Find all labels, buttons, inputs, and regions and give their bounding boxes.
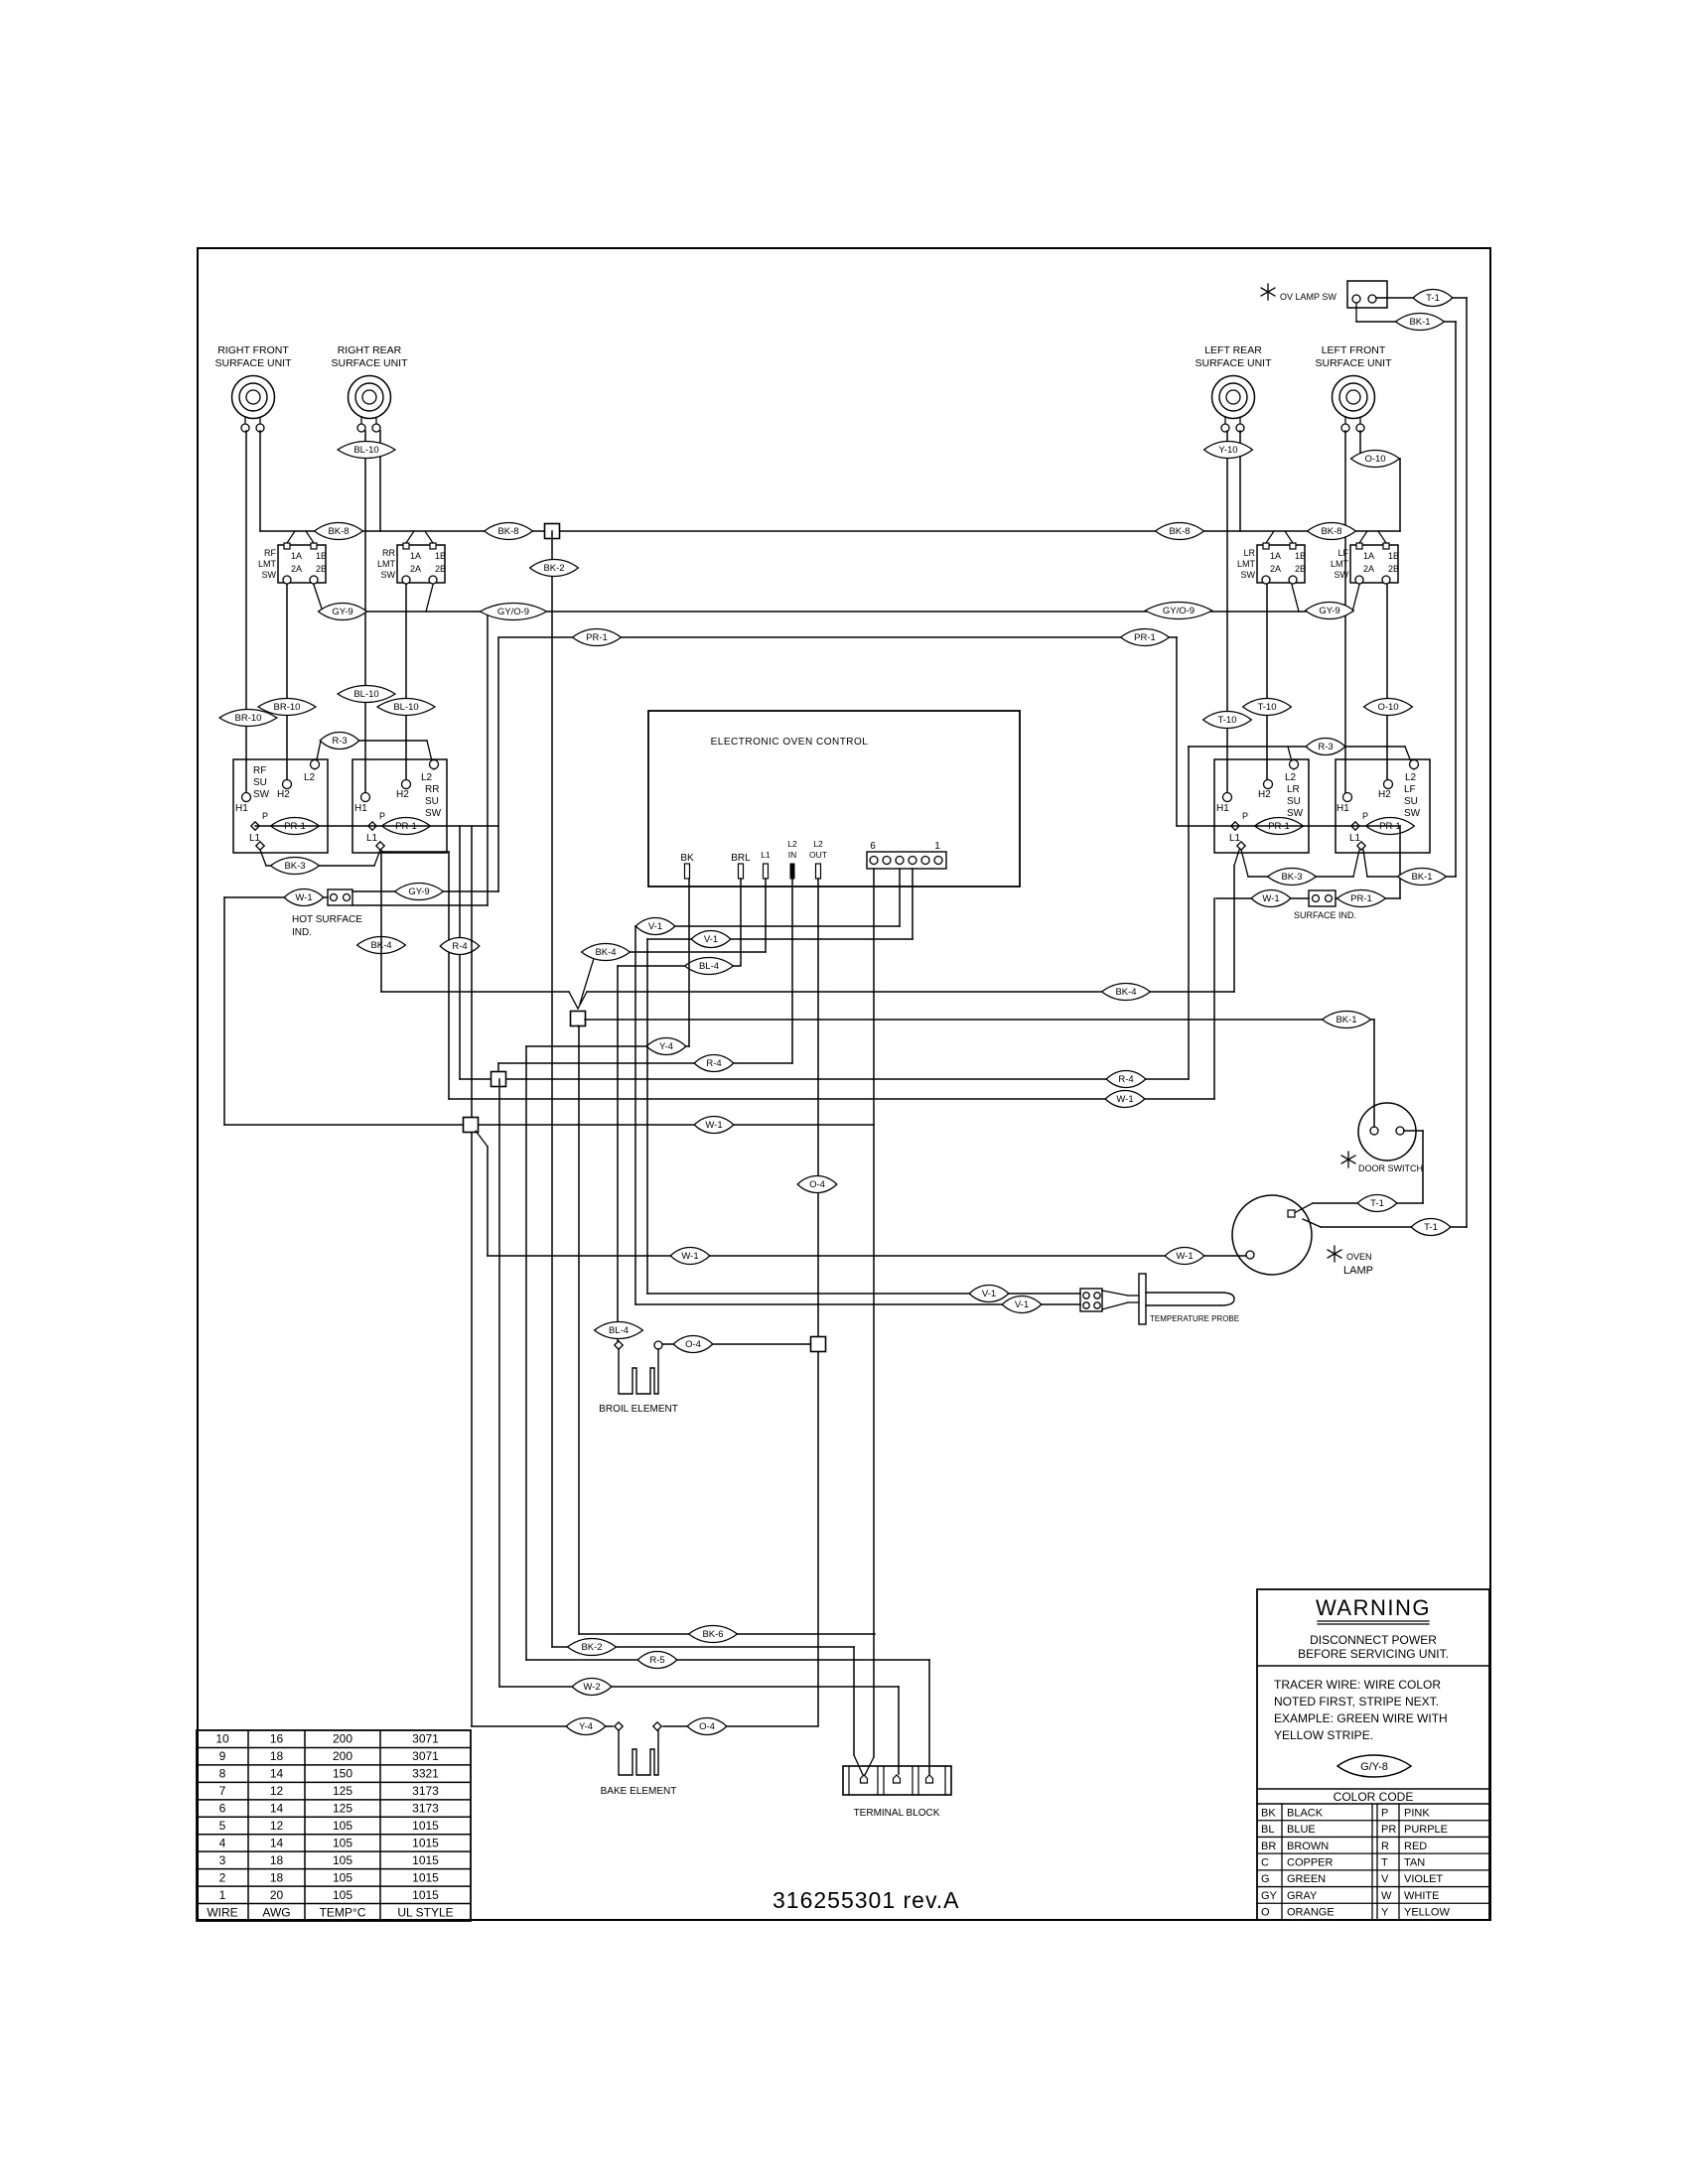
svg-text:14: 14 xyxy=(270,1836,284,1849)
svg-text:TRACER WIRE: WIRE COLOR: TRACER WIRE: WIRE COLOR xyxy=(1274,1678,1441,1692)
svg-text:150: 150 xyxy=(333,1767,352,1781)
svg-text:18: 18 xyxy=(270,1870,284,1884)
svg-text:LMT: LMT xyxy=(377,559,396,569)
svg-text:P: P xyxy=(262,811,268,821)
svg-text:V-1: V-1 xyxy=(1015,1299,1029,1310)
svg-text:SURFACE UNIT: SURFACE UNIT xyxy=(331,357,408,369)
svg-text:IN: IN xyxy=(788,850,797,860)
svg-text:O-10: O-10 xyxy=(1377,702,1398,713)
svg-text:3071: 3071 xyxy=(412,1732,439,1746)
svg-text:RIGHT FRONT: RIGHT FRONT xyxy=(217,344,289,356)
svg-text:SW: SW xyxy=(381,570,396,580)
svg-text:P: P xyxy=(1242,811,1248,821)
svg-text:L2: L2 xyxy=(304,772,316,783)
svg-text:1A: 1A xyxy=(410,551,421,561)
svg-text:BK-3: BK-3 xyxy=(284,861,305,872)
svg-text:BK-4: BK-4 xyxy=(595,947,616,958)
svg-text:7: 7 xyxy=(219,1784,226,1798)
svg-text:T-1: T-1 xyxy=(1424,1222,1438,1233)
svg-text:O-4: O-4 xyxy=(809,1179,825,1190)
svg-text:COPPER: COPPER xyxy=(1287,1857,1334,1869)
svg-text:SU: SU xyxy=(253,777,267,788)
svg-text:R-4: R-4 xyxy=(452,941,467,952)
svg-text:BL: BL xyxy=(1261,1824,1274,1836)
svg-text:5: 5 xyxy=(219,1819,226,1833)
svg-text:SURFACE UNIT: SURFACE UNIT xyxy=(214,357,292,369)
svg-text:1B: 1B xyxy=(316,551,327,561)
svg-text:V-1: V-1 xyxy=(648,921,662,932)
svg-text:3: 3 xyxy=(219,1853,226,1867)
svg-text:105: 105 xyxy=(333,1853,352,1867)
svg-text:G/Y-8: G/Y-8 xyxy=(1360,1761,1388,1773)
svg-text:BLACK: BLACK xyxy=(1287,1807,1324,1819)
svg-text:P: P xyxy=(1362,811,1368,821)
svg-text:BK-2: BK-2 xyxy=(543,563,564,574)
svg-text:1: 1 xyxy=(219,1888,226,1902)
svg-text:H2: H2 xyxy=(277,789,290,800)
svg-text:BL-4: BL-4 xyxy=(609,1325,629,1336)
svg-text:BL-10: BL-10 xyxy=(353,689,378,700)
svg-text:BK-1: BK-1 xyxy=(1336,1015,1356,1025)
svg-text:125: 125 xyxy=(333,1802,352,1816)
svg-text:2A: 2A xyxy=(1363,564,1374,574)
svg-text:Y: Y xyxy=(1381,1907,1389,1919)
svg-text:OVEN: OVEN xyxy=(1346,1252,1372,1262)
svg-text:SW: SW xyxy=(425,808,442,819)
svg-text:W-1: W-1 xyxy=(1262,893,1279,904)
svg-text:1A: 1A xyxy=(1270,551,1281,561)
svg-text:G: G xyxy=(1261,1873,1270,1885)
svg-text:W-1: W-1 xyxy=(295,892,312,903)
svg-text:BK-2: BK-2 xyxy=(581,1642,602,1653)
svg-text:UL STYLE: UL STYLE xyxy=(397,1905,453,1919)
svg-text:DOOR SWITCH: DOOR SWITCH xyxy=(1358,1163,1423,1173)
svg-text:LEFT FRONT: LEFT FRONT xyxy=(1322,344,1386,356)
svg-text:9: 9 xyxy=(219,1749,226,1763)
svg-text:LEFT REAR: LEFT REAR xyxy=(1204,344,1262,356)
svg-text:1015: 1015 xyxy=(412,1819,439,1833)
svg-text:HOT SURFACE: HOT SURFACE xyxy=(292,914,362,925)
svg-text:BK: BK xyxy=(1261,1807,1276,1819)
svg-text:H1: H1 xyxy=(1336,803,1349,814)
svg-text:GRAY: GRAY xyxy=(1287,1890,1318,1902)
svg-text:6: 6 xyxy=(870,841,876,852)
svg-text:SURFACE IND.: SURFACE IND. xyxy=(1294,910,1356,920)
svg-text:LMT: LMT xyxy=(258,559,277,569)
svg-text:P: P xyxy=(1381,1807,1388,1819)
svg-text:3173: 3173 xyxy=(412,1802,439,1816)
svg-text:SW: SW xyxy=(1241,570,1256,580)
svg-text:L2: L2 xyxy=(813,839,823,849)
svg-text:L2: L2 xyxy=(421,772,433,783)
svg-text:GY/O-9: GY/O-9 xyxy=(1163,606,1195,616)
svg-text:SW: SW xyxy=(1404,808,1421,819)
svg-text:105: 105 xyxy=(333,1836,352,1849)
svg-text:14: 14 xyxy=(270,1767,284,1781)
svg-text:WHITE: WHITE xyxy=(1404,1890,1439,1902)
svg-text:316255301 rev.A: 316255301 rev.A xyxy=(773,1887,960,1913)
svg-text:T: T xyxy=(1381,1857,1388,1869)
svg-text:BR-10: BR-10 xyxy=(274,702,301,713)
svg-text:L1: L1 xyxy=(366,833,378,844)
svg-text:1015: 1015 xyxy=(412,1888,439,1902)
svg-text:8: 8 xyxy=(219,1767,226,1781)
svg-text:NOTED FIRST, STRIPE NEXT.: NOTED FIRST, STRIPE NEXT. xyxy=(1274,1695,1439,1708)
svg-text:GY-9: GY-9 xyxy=(1319,606,1339,616)
svg-text:10: 10 xyxy=(215,1732,229,1746)
svg-text:T-1: T-1 xyxy=(1370,1198,1384,1209)
svg-text:6: 6 xyxy=(219,1802,226,1816)
svg-text:BK-4: BK-4 xyxy=(1115,987,1136,998)
svg-text:LR: LR xyxy=(1243,548,1255,558)
svg-text:GY-9: GY-9 xyxy=(408,887,429,897)
svg-text:R-4: R-4 xyxy=(706,1058,721,1069)
svg-text:W-1: W-1 xyxy=(705,1120,722,1131)
svg-text:BK-6: BK-6 xyxy=(702,1629,723,1640)
svg-text:PINK: PINK xyxy=(1404,1807,1430,1819)
svg-text:2: 2 xyxy=(219,1870,226,1884)
svg-text:1015: 1015 xyxy=(412,1870,439,1884)
svg-text:1B: 1B xyxy=(1295,551,1306,561)
svg-text:ELECTRONIC OVEN CONTROL: ELECTRONIC OVEN CONTROL xyxy=(711,737,869,748)
svg-text:RF: RF xyxy=(253,765,266,776)
svg-text:BK-8: BK-8 xyxy=(328,526,349,537)
svg-text:4: 4 xyxy=(219,1836,226,1849)
svg-text:L2: L2 xyxy=(1285,772,1297,783)
svg-text:VIOLET: VIOLET xyxy=(1404,1873,1443,1885)
svg-text:SURFACE UNIT: SURFACE UNIT xyxy=(1195,357,1272,369)
svg-text:LF: LF xyxy=(1337,548,1348,558)
svg-text:BK-8: BK-8 xyxy=(497,526,518,537)
svg-text:2B: 2B xyxy=(1388,564,1399,574)
svg-text:L1: L1 xyxy=(1229,833,1241,844)
svg-text:BK-8: BK-8 xyxy=(1321,526,1341,537)
svg-text:L1: L1 xyxy=(1349,833,1361,844)
svg-text:AWG: AWG xyxy=(262,1905,290,1919)
svg-text:L2: L2 xyxy=(1405,772,1417,783)
svg-text:1B: 1B xyxy=(435,551,446,561)
svg-text:V: V xyxy=(1381,1873,1389,1885)
svg-text:W-1: W-1 xyxy=(1116,1094,1133,1105)
svg-text:BLUE: BLUE xyxy=(1287,1824,1316,1836)
svg-text:BK: BK xyxy=(680,853,694,864)
svg-text:18: 18 xyxy=(270,1749,284,1763)
svg-text:H1: H1 xyxy=(354,803,367,814)
svg-text:R-4: R-4 xyxy=(1118,1074,1133,1085)
svg-text:16: 16 xyxy=(270,1732,284,1746)
svg-text:GY: GY xyxy=(1261,1890,1278,1902)
svg-text:WIRE: WIRE xyxy=(207,1905,237,1919)
svg-text:GREEN: GREEN xyxy=(1287,1873,1326,1885)
svg-text:2B: 2B xyxy=(435,564,446,574)
svg-text:3321: 3321 xyxy=(412,1767,439,1781)
svg-text:SW: SW xyxy=(1335,570,1349,580)
svg-text:YELLOW STRIPE.: YELLOW STRIPE. xyxy=(1274,1728,1373,1742)
svg-text:BK-1: BK-1 xyxy=(1409,317,1430,328)
svg-text:TEMPERATURE PROBE: TEMPERATURE PROBE xyxy=(1150,1314,1239,1323)
svg-text:O-4: O-4 xyxy=(699,1721,715,1732)
svg-text:125: 125 xyxy=(333,1784,352,1798)
svg-text:H1: H1 xyxy=(1216,803,1229,814)
svg-text:PR: PR xyxy=(1381,1824,1396,1836)
svg-text:BR: BR xyxy=(1261,1841,1276,1852)
svg-text:Y-4: Y-4 xyxy=(579,1721,593,1732)
svg-text:2B: 2B xyxy=(316,564,327,574)
svg-text:1015: 1015 xyxy=(412,1853,439,1867)
svg-text:1A: 1A xyxy=(291,551,302,561)
svg-text:R-3: R-3 xyxy=(332,736,347,747)
svg-text:SW: SW xyxy=(1287,808,1304,819)
svg-text:BK-1: BK-1 xyxy=(1411,872,1432,883)
svg-text:O: O xyxy=(1261,1907,1270,1919)
svg-text:V-1: V-1 xyxy=(982,1289,996,1299)
svg-text:R: R xyxy=(1381,1841,1389,1852)
svg-text:BL-4: BL-4 xyxy=(699,961,719,972)
svg-text:12: 12 xyxy=(270,1784,284,1798)
svg-text:H2: H2 xyxy=(396,789,409,800)
svg-text:OUT: OUT xyxy=(809,850,827,860)
svg-text:BEFORE SERVICING UNIT.: BEFORE SERVICING UNIT. xyxy=(1298,1647,1449,1661)
svg-text:H1: H1 xyxy=(235,803,248,814)
svg-text:L1: L1 xyxy=(249,833,261,844)
svg-text:200: 200 xyxy=(333,1732,352,1746)
svg-text:RED: RED xyxy=(1404,1841,1427,1852)
svg-text:DISCONNECT POWER: DISCONNECT POWER xyxy=(1310,1633,1437,1647)
svg-text:RR: RR xyxy=(425,784,439,795)
svg-text:1A: 1A xyxy=(1363,551,1374,561)
svg-text:L2: L2 xyxy=(787,839,797,849)
svg-text:P: P xyxy=(379,811,385,821)
svg-text:OV LAMP SW: OV LAMP SW xyxy=(1280,292,1336,302)
svg-text:TERMINAL BLOCK: TERMINAL BLOCK xyxy=(854,1808,940,1819)
svg-text:V-1: V-1 xyxy=(704,934,718,945)
svg-text:RIGHT REAR: RIGHT REAR xyxy=(338,344,402,356)
svg-text:BL-10: BL-10 xyxy=(393,702,418,713)
svg-text:105: 105 xyxy=(333,1888,352,1902)
svg-text:BRL: BRL xyxy=(731,853,751,864)
svg-text:LF: LF xyxy=(1404,784,1416,795)
svg-text:EXAMPLE: GREEN WIRE WITH: EXAMPLE: GREEN WIRE WITH xyxy=(1274,1711,1448,1725)
svg-text:L1: L1 xyxy=(761,850,771,860)
svg-text:BROIL ELEMENT: BROIL ELEMENT xyxy=(599,1404,678,1415)
svg-text:YELLOW: YELLOW xyxy=(1404,1907,1450,1919)
svg-text:SW: SW xyxy=(253,789,270,800)
svg-text:H2: H2 xyxy=(1378,789,1391,800)
svg-text:T-1: T-1 xyxy=(1426,293,1440,304)
svg-text:PR-1: PR-1 xyxy=(1134,632,1156,643)
svg-text:GY-9: GY-9 xyxy=(332,607,352,617)
svg-text:TEMP°C: TEMP°C xyxy=(320,1905,366,1919)
svg-text:R-3: R-3 xyxy=(1318,742,1333,752)
svg-text:PR-1: PR-1 xyxy=(586,632,608,643)
svg-text:LMT: LMT xyxy=(1237,559,1256,569)
svg-text:T-10: T-10 xyxy=(1257,702,1276,713)
svg-text:COLOR CODE: COLOR CODE xyxy=(1334,1790,1414,1804)
svg-text:12: 12 xyxy=(270,1819,284,1833)
svg-text:1: 1 xyxy=(934,841,940,852)
svg-text:2B: 2B xyxy=(1295,564,1306,574)
svg-text:BROWN: BROWN xyxy=(1287,1841,1329,1852)
svg-text:ORANGE: ORANGE xyxy=(1287,1907,1335,1919)
svg-text:LAMP: LAMP xyxy=(1343,1265,1373,1277)
svg-text:W-1: W-1 xyxy=(1176,1251,1193,1262)
svg-text:SU: SU xyxy=(1287,796,1301,807)
svg-text:200: 200 xyxy=(333,1749,352,1763)
svg-text:BK-3: BK-3 xyxy=(1281,872,1302,883)
svg-text:3173: 3173 xyxy=(412,1784,439,1798)
svg-text:2A: 2A xyxy=(1270,564,1281,574)
svg-text:3071: 3071 xyxy=(412,1749,439,1763)
svg-text:W-1: W-1 xyxy=(681,1251,698,1262)
svg-text:Y-10: Y-10 xyxy=(1218,445,1237,456)
svg-text:RR: RR xyxy=(382,548,395,558)
svg-text:14: 14 xyxy=(270,1802,284,1816)
svg-text:H2: H2 xyxy=(1258,789,1271,800)
svg-text:GY/O-9: GY/O-9 xyxy=(497,607,529,617)
svg-text:IND.: IND. xyxy=(292,927,312,938)
svg-text:O-4: O-4 xyxy=(685,1339,701,1350)
svg-text:R-5: R-5 xyxy=(649,1655,664,1666)
svg-text:SU: SU xyxy=(425,796,439,807)
svg-text:SU: SU xyxy=(1404,796,1418,807)
svg-text:BL-10: BL-10 xyxy=(353,445,378,456)
svg-text:BR-10: BR-10 xyxy=(235,713,262,724)
svg-text:PR-1: PR-1 xyxy=(1350,893,1372,904)
svg-text:105: 105 xyxy=(333,1870,352,1884)
svg-text:BAKE ELEMENT: BAKE ELEMENT xyxy=(601,1786,677,1797)
svg-text:105: 105 xyxy=(333,1819,352,1833)
svg-text:1B: 1B xyxy=(1388,551,1399,561)
svg-text:2A: 2A xyxy=(410,564,421,574)
svg-text:WARNING: WARNING xyxy=(1316,1595,1431,1620)
svg-text:C: C xyxy=(1261,1857,1269,1869)
svg-text:W: W xyxy=(1381,1890,1392,1902)
svg-text:1015: 1015 xyxy=(412,1836,439,1849)
svg-text:LR: LR xyxy=(1287,784,1300,795)
svg-text:2A: 2A xyxy=(291,564,302,574)
svg-text:W-2: W-2 xyxy=(583,1682,600,1693)
svg-text:PURPLE: PURPLE xyxy=(1404,1824,1448,1836)
svg-text:18: 18 xyxy=(270,1853,284,1867)
svg-text:SW: SW xyxy=(262,570,277,580)
svg-text:20: 20 xyxy=(270,1888,284,1902)
svg-text:RF: RF xyxy=(264,548,276,558)
svg-text:SURFACE UNIT: SURFACE UNIT xyxy=(1315,357,1392,369)
svg-text:BK-8: BK-8 xyxy=(1169,526,1190,537)
svg-text:T-10: T-10 xyxy=(1217,715,1236,726)
svg-text:TAN: TAN xyxy=(1404,1857,1425,1869)
svg-text:Y-4: Y-4 xyxy=(659,1041,673,1052)
svg-text:O-10: O-10 xyxy=(1364,454,1385,465)
